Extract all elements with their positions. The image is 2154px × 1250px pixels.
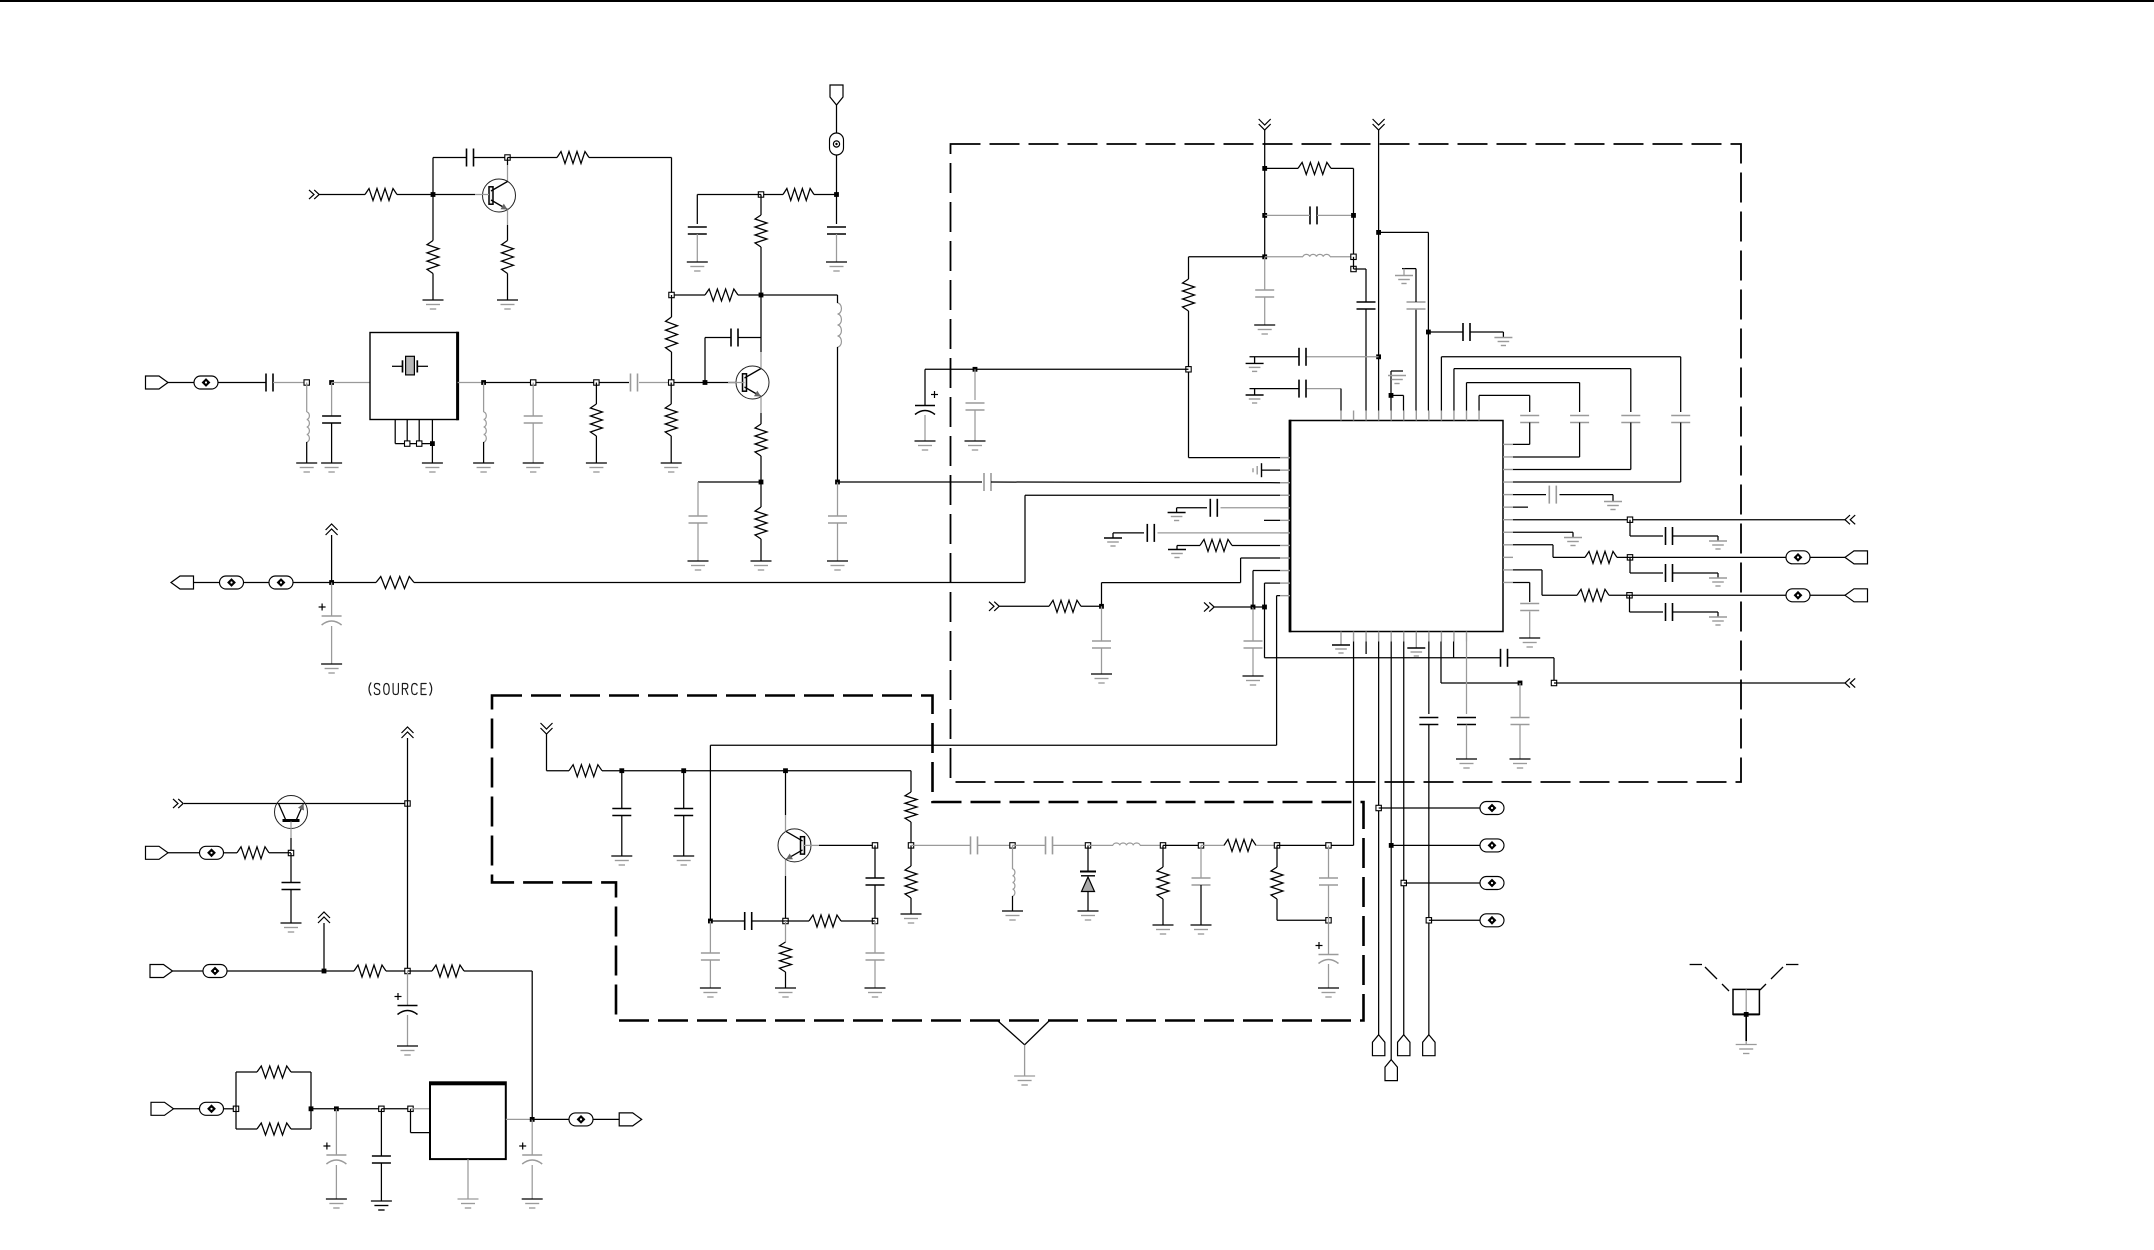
resistor R26	[1271, 867, 1283, 899]
test point TP6	[203, 965, 227, 978]
wire	[1265, 168, 1354, 215]
wire	[1215, 606, 1254, 608]
test point TP3	[220, 576, 244, 589]
node	[288, 850, 293, 855]
resistor R9	[590, 404, 602, 436]
node	[1518, 681, 1523, 686]
wire	[1265, 215, 1354, 256]
wire	[911, 844, 970, 846]
capacitor C33	[1357, 302, 1376, 309]
wire	[306, 442, 308, 463]
wire	[1609, 594, 1786, 596]
wire	[874, 960, 876, 988]
node	[430, 441, 435, 446]
ground	[321, 664, 342, 673]
connector flag P1	[1372, 1035, 1384, 1056]
capacitor C24	[971, 836, 978, 854]
resistor R20	[905, 792, 917, 822]
wire	[910, 822, 912, 845]
ground	[1104, 538, 1122, 546]
ground	[1078, 911, 1099, 920]
node	[329, 380, 334, 385]
test point TP12	[1480, 839, 1504, 852]
wire	[1428, 725, 1430, 1035]
node	[408, 1106, 413, 1111]
wire	[1554, 682, 1845, 684]
ground	[827, 561, 848, 570]
ground	[915, 441, 936, 450]
wire	[1441, 642, 1520, 684]
test point TP13	[1480, 877, 1504, 890]
wire	[1519, 725, 1521, 760]
node	[1262, 605, 1267, 610]
wire	[1467, 383, 1580, 412]
wire	[760, 195, 762, 296]
capacitor C10	[828, 516, 847, 523]
wire	[1163, 844, 1201, 846]
wire	[1162, 845, 1164, 925]
wire	[684, 770, 786, 772]
ground	[611, 856, 632, 865]
chassis ground	[998, 1021, 1049, 1085]
wire	[1113, 533, 1144, 538]
wire	[1428, 332, 1503, 338]
capacitor C26	[1192, 878, 1211, 885]
wire	[709, 921, 711, 953]
ground	[1388, 376, 1406, 384]
transistor Q3	[275, 796, 308, 829]
connector flag J6	[151, 1102, 174, 1115]
wire	[395, 420, 432, 463]
ground	[1254, 325, 1275, 334]
node	[681, 768, 686, 773]
node	[669, 380, 674, 385]
node	[1160, 843, 1165, 848]
wire	[1201, 844, 1224, 846]
capacitor C50	[1666, 564, 1673, 582]
wire	[710, 596, 1280, 746]
transistor Q1	[483, 179, 516, 212]
power arrow	[541, 723, 570, 771]
wire	[602, 770, 622, 772]
input arrow IN3	[989, 602, 999, 611]
wire	[335, 1109, 337, 1155]
inductor L4	[838, 303, 842, 347]
ground	[1494, 338, 1512, 346]
wire	[218, 382, 266, 384]
node	[530, 1117, 535, 1122]
IC U3	[1290, 420, 1503, 632]
ground	[1168, 550, 1186, 558]
resistor R2	[427, 241, 439, 274]
capacitor C8	[631, 374, 638, 392]
capacitor C22	[701, 953, 720, 960]
connector flag P4	[1423, 1035, 1435, 1056]
capacitor C37	[1463, 323, 1470, 341]
capacitor C54	[1457, 718, 1476, 725]
wire	[837, 523, 839, 561]
wire	[531, 1165, 533, 1199]
wire	[978, 844, 1013, 846]
capacitor C23	[866, 953, 885, 960]
wire	[331, 626, 333, 664]
node	[322, 969, 327, 974]
node	[1186, 367, 1191, 372]
capacitor C41	[1520, 416, 1539, 423]
ground	[522, 1199, 543, 1208]
connector flag J2	[146, 376, 169, 389]
resistor R32	[1577, 589, 1609, 601]
inductor L6	[1113, 843, 1140, 845]
wire	[803, 844, 875, 846]
wire	[508, 157, 558, 159]
capacitor C16	[372, 1156, 391, 1163]
wire	[1177, 508, 1207, 513]
wire	[467, 1159, 469, 1199]
capacitor C45	[1244, 641, 1263, 648]
wire	[332, 382, 370, 384]
resistor R15	[354, 965, 386, 977]
wire	[1200, 845, 1202, 878]
node	[594, 380, 599, 385]
IC U3 pins	[1280, 411, 1513, 642]
capacitor C25	[1046, 836, 1053, 854]
node	[1389, 393, 1394, 398]
wire	[1013, 844, 1046, 846]
node	[1198, 843, 1203, 848]
test point TP1	[830, 133, 844, 155]
wire	[786, 771, 912, 792]
node	[379, 1106, 384, 1111]
wire	[1673, 536, 1719, 541]
node	[872, 918, 877, 923]
wire	[331, 423, 333, 463]
capacitor C31 (polarized)	[915, 391, 938, 415]
node	[1426, 330, 1431, 335]
test point TP2	[194, 376, 218, 389]
resistor R27	[1298, 162, 1331, 174]
capacitor C6	[322, 416, 341, 423]
wire	[683, 771, 685, 809]
wire	[1428, 642, 1430, 715]
resistor R31	[1585, 551, 1617, 563]
ground	[371, 1201, 392, 1210]
wire	[1810, 556, 1845, 558]
ground	[1456, 759, 1477, 768]
wire	[1560, 495, 1614, 502]
capacitor C18	[612, 809, 631, 816]
ground	[1709, 541, 1727, 549]
wire	[1630, 595, 1664, 612]
ground	[586, 463, 607, 472]
ground	[1519, 638, 1540, 647]
ground	[673, 856, 694, 865]
wire	[924, 415, 926, 441]
wire	[397, 158, 467, 195]
capacitor C46	[1501, 649, 1508, 667]
varactor diode D1	[1080, 845, 1096, 911]
resistor R8	[666, 317, 678, 352]
wire	[1328, 845, 1330, 878]
wire	[697, 195, 761, 225]
ground	[1736, 1045, 1757, 1054]
node	[1426, 918, 1431, 923]
test point TP14	[1480, 914, 1504, 927]
wire	[414, 495, 1290, 582]
wire	[1513, 545, 1585, 558]
ground	[281, 923, 302, 932]
capacitor C35	[1299, 380, 1306, 398]
wire	[184, 803, 408, 805]
wire	[622, 770, 684, 772]
node	[329, 580, 334, 585]
wire	[1379, 807, 1480, 809]
ground	[865, 988, 886, 997]
test point TP8	[569, 1113, 593, 1126]
wire	[1365, 642, 1367, 655]
capacitor C15 (polarized)	[323, 1143, 346, 1165]
ground	[687, 262, 708, 271]
wire	[320, 194, 366, 196]
wire	[290, 890, 292, 924]
node	[233, 1106, 238, 1111]
test point TP10	[1786, 589, 1810, 602]
capacitor C3	[827, 227, 846, 234]
capacitor C51	[1666, 603, 1673, 621]
wire	[728, 382, 745, 384]
node	[531, 380, 536, 385]
crystal Y1	[392, 356, 428, 375]
node	[334, 1106, 339, 1111]
resistor R25	[1224, 839, 1256, 851]
wire	[311, 1108, 336, 1110]
wire	[1353, 642, 1355, 846]
wire	[785, 771, 787, 921]
wire	[1403, 642, 1405, 1035]
wire	[483, 442, 485, 463]
node	[759, 480, 764, 485]
wire	[1253, 607, 1454, 658]
wire	[1088, 844, 1163, 846]
ground	[1564, 538, 1582, 546]
test point TP9	[1786, 551, 1810, 564]
power arrow	[318, 912, 330, 971]
ground	[1246, 357, 1264, 372]
wire	[836, 105, 838, 133]
capacitor C19	[674, 809, 693, 816]
capacitor C36	[1407, 302, 1426, 309]
node	[1627, 555, 1632, 560]
ground	[1318, 988, 1339, 997]
wire	[1617, 556, 1786, 558]
wire	[671, 295, 673, 380]
node	[1262, 166, 1267, 171]
wire	[1390, 642, 1392, 1060]
wire	[269, 853, 291, 882]
ground	[965, 441, 986, 450]
wire	[1513, 423, 1681, 483]
node	[759, 293, 764, 298]
transistor Q4	[778, 829, 811, 862]
wire	[874, 921, 876, 953]
wire	[1630, 520, 1663, 536]
wire	[1264, 297, 1266, 325]
capacitor C34	[1299, 348, 1306, 366]
resistor R19	[569, 765, 602, 777]
wire	[705, 338, 731, 383]
wire	[991, 481, 1290, 484]
wire	[760, 456, 762, 482]
wire	[1177, 545, 1200, 549]
wire	[1101, 648, 1103, 674]
wire	[1810, 594, 1845, 596]
wire	[836, 234, 838, 262]
ground	[321, 463, 342, 472]
test point TP11	[1480, 802, 1504, 815]
wire	[1404, 882, 1480, 884]
wire	[1189, 311, 1291, 458]
inductor L3	[484, 412, 487, 442]
wire	[173, 970, 204, 972]
wire	[1529, 612, 1531, 639]
input arrow IN5	[1845, 515, 1855, 524]
resistor R11	[755, 424, 767, 456]
resistor R5	[783, 189, 814, 201]
wire	[1429, 919, 1480, 921]
ground	[751, 561, 772, 570]
wire	[1000, 605, 1050, 607]
wire	[1328, 964, 1330, 988]
voltage regulator U2	[430, 1082, 506, 1159]
wire	[408, 971, 533, 1119]
wire	[1513, 423, 1580, 457]
node	[619, 768, 624, 773]
shield box (dashed) IF section	[951, 144, 1742, 782]
wire	[837, 295, 839, 482]
wire	[910, 898, 912, 914]
wire	[836, 155, 838, 195]
ground	[1510, 759, 1531, 768]
capacitor C47	[1511, 718, 1530, 725]
wire	[380, 1163, 382, 1201]
wire	[1354, 257, 1367, 302]
wire	[331, 583, 333, 617]
wire	[672, 294, 838, 296]
wire	[1513, 532, 1573, 537]
output arrow OUT1	[1845, 678, 1855, 687]
wire	[621, 816, 623, 857]
wire	[1232, 544, 1280, 546]
wire	[1265, 256, 1354, 258]
node	[669, 292, 674, 297]
wire	[273, 382, 307, 384]
ground	[422, 463, 443, 472]
ground	[423, 300, 444, 309]
wire	[407, 971, 409, 1005]
wire	[1673, 612, 1719, 617]
wire	[432, 195, 434, 301]
power arrow	[1259, 119, 1271, 168]
wire	[1081, 605, 1102, 607]
resistor R21	[905, 866, 917, 898]
wire	[506, 1118, 532, 1120]
power arrow (SOURCE)	[326, 524, 338, 583]
ground	[1407, 642, 1425, 657]
wire	[1221, 507, 1281, 509]
ground	[700, 988, 721, 997]
node	[1326, 843, 1331, 848]
wire	[474, 157, 508, 159]
ground	[1332, 642, 1350, 654]
wire	[1391, 371, 1404, 411]
wire	[910, 845, 912, 866]
node	[1351, 254, 1356, 259]
power arrow	[1373, 119, 1385, 411]
crystal filter U1	[370, 332, 458, 421]
wire	[1200, 885, 1202, 925]
capacitor C20	[866, 878, 885, 885]
wire	[709, 960, 711, 988]
wire	[236, 1072, 311, 1129]
wire	[483, 383, 485, 413]
node	[405, 441, 410, 446]
ground	[473, 463, 494, 472]
node	[405, 801, 410, 806]
wire	[974, 369, 976, 400]
wire	[306, 383, 308, 413]
node	[708, 919, 713, 924]
capacitor C7	[524, 416, 543, 423]
ground	[326, 1199, 347, 1208]
wire	[224, 1108, 237, 1110]
wire	[837, 482, 839, 516]
wire	[1252, 648, 1254, 676]
wire	[1252, 607, 1254, 641]
input arrow IN2	[173, 799, 183, 808]
wire	[224, 852, 238, 854]
connector flag P2	[1385, 1060, 1397, 1081]
node	[835, 480, 840, 485]
node	[1010, 843, 1015, 848]
node	[417, 441, 422, 446]
capacitor C52	[1520, 604, 1539, 611]
wire	[589, 158, 672, 296]
wire	[290, 822, 292, 854]
capacitor C14 (polarized)	[395, 993, 418, 1015]
wire	[1250, 356, 1379, 358]
node	[1262, 213, 1267, 218]
connector flag J8	[1845, 551, 1868, 564]
wire	[1454, 369, 1631, 412]
capacitor C48	[1549, 486, 1556, 504]
connector flag J3	[171, 576, 194, 589]
wire	[1256, 844, 1277, 846]
wire	[1513, 519, 1845, 521]
resistor R1	[365, 189, 397, 201]
resistor R12	[755, 507, 767, 539]
wire	[1012, 896, 1014, 911]
ground	[1253, 463, 1280, 477]
node	[1376, 230, 1381, 235]
wire	[1264, 257, 1266, 290]
capacitor C17 (polarized)	[519, 1143, 542, 1165]
wire	[168, 382, 194, 384]
connector flag J7	[619, 1113, 642, 1126]
input arrow IN4	[1204, 602, 1214, 611]
capacitor C1	[467, 149, 474, 167]
capacitor C27	[1319, 878, 1338, 885]
resistor R22	[809, 915, 841, 927]
